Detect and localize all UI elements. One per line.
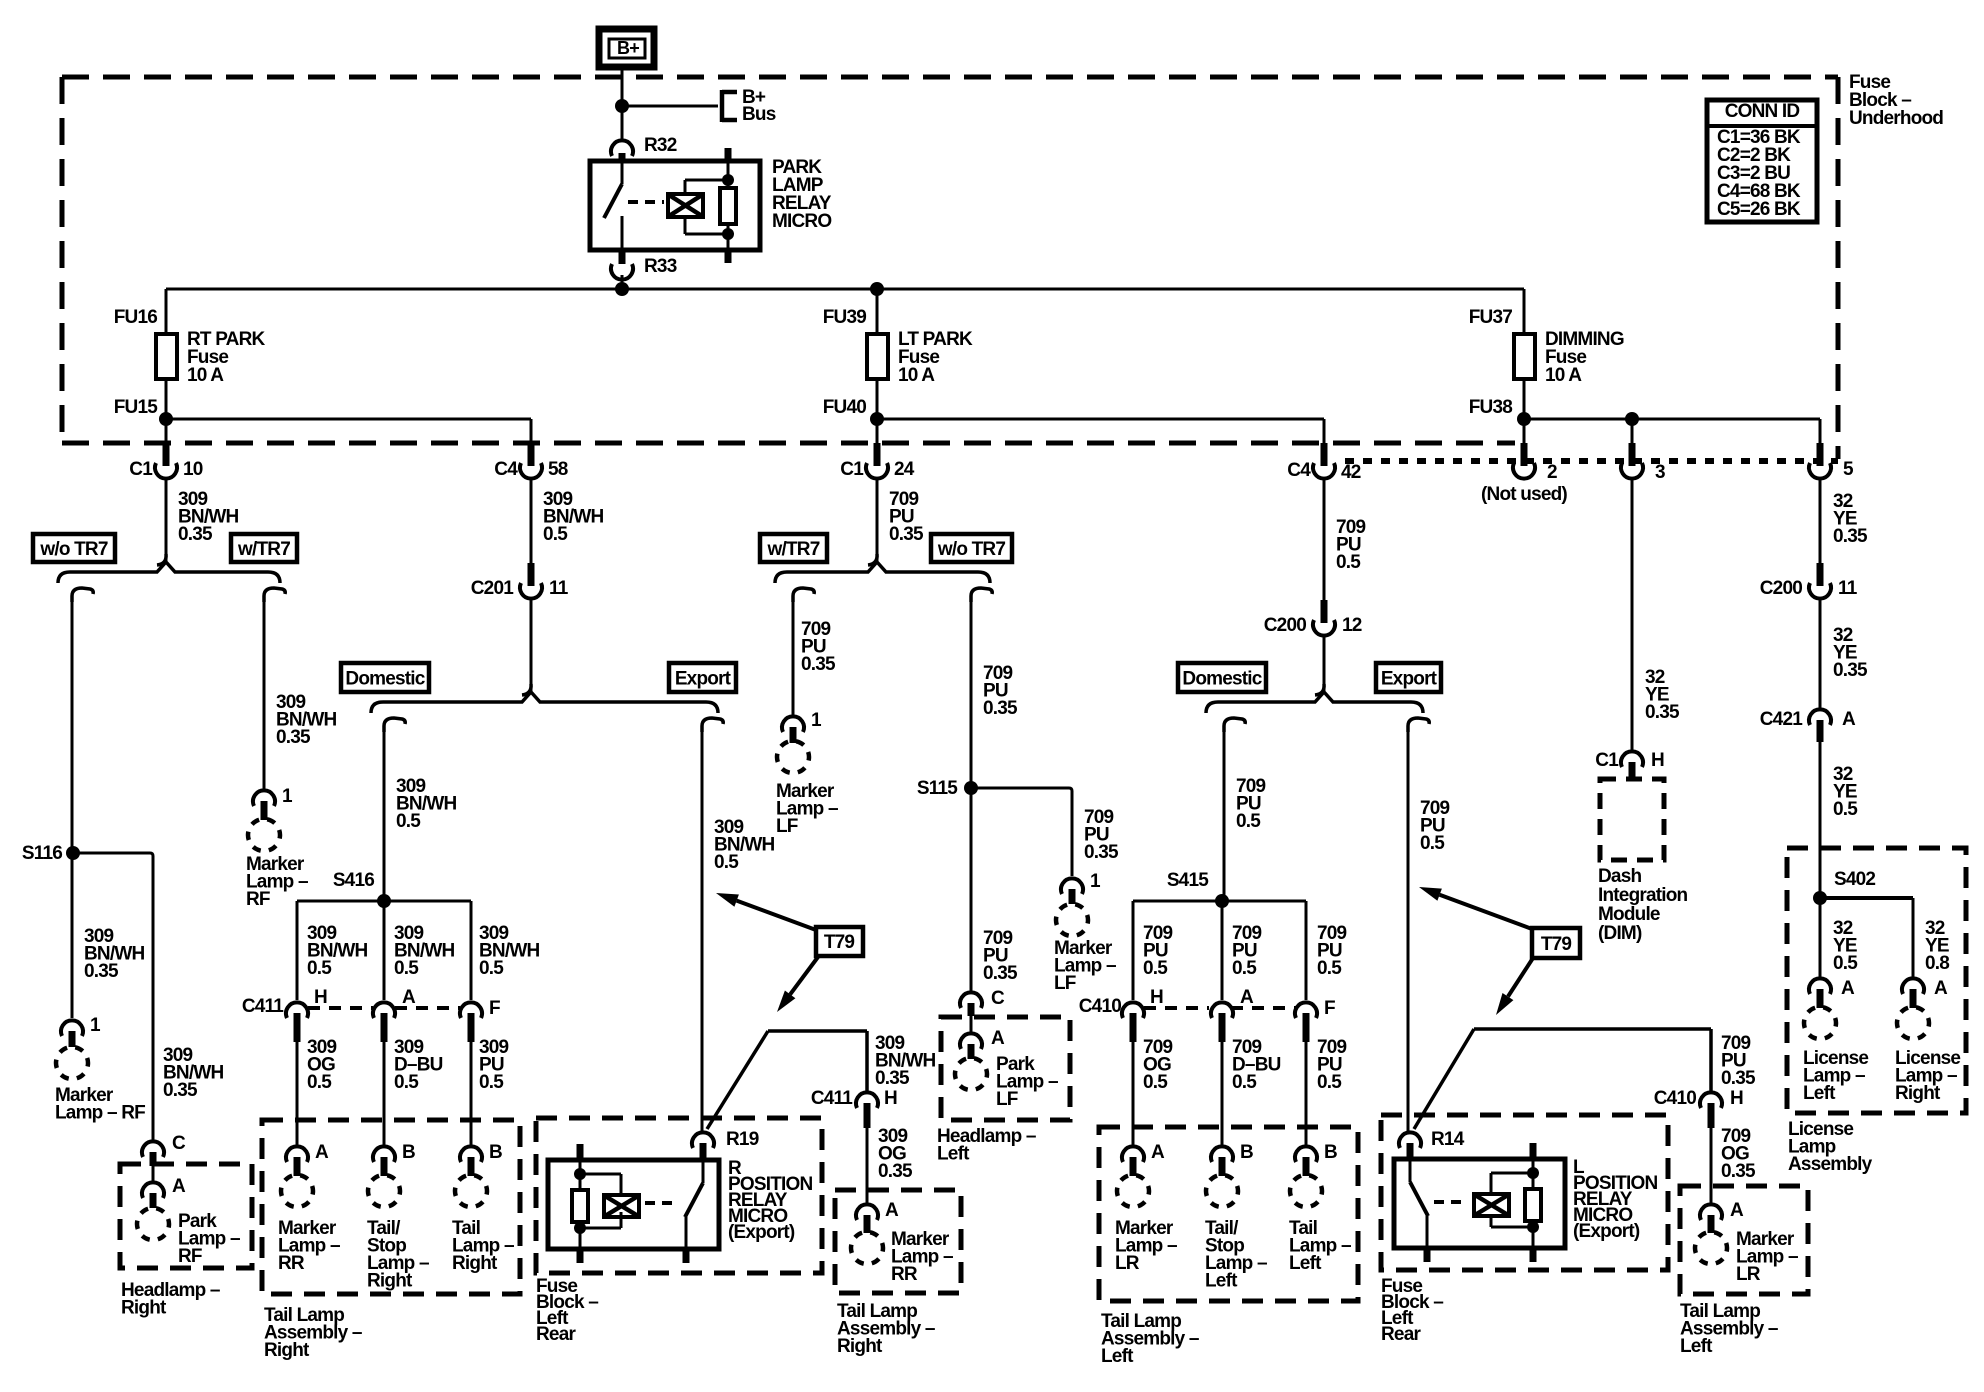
splice S402 bar — [1820, 898, 1913, 979]
svg-text:R32: R32 — [644, 135, 677, 156]
svg-text:10: 10 — [183, 459, 203, 480]
svg-text:Left: Left — [1680, 1336, 1713, 1357]
svg-text:B+: B+ — [617, 38, 639, 58]
node R14 resistor top — [1527, 1167, 1539, 1179]
svg-text:0.35: 0.35 — [1645, 702, 1680, 723]
wire C4-42 down — [1323, 477, 1326, 603]
relay coil-resistor loop wires — [685, 180, 728, 234]
tail lamp assembly left dashed box — [1099, 1127, 1358, 1301]
svg-text:58: 58 — [548, 459, 568, 480]
svg-text:FU40: FU40 — [823, 397, 866, 418]
svg-text:1: 1 — [1090, 871, 1101, 892]
svg-text:LF: LF — [776, 816, 798, 837]
svg-text:C: C — [991, 988, 1005, 1009]
svg-text:S115: S115 — [917, 778, 958, 799]
wire label 32 YE 0.5 (left lamp) — [1833, 918, 1858, 974]
wire S115 branch — [971, 788, 1072, 876]
wire bus to FU37 — [1523, 289, 1526, 334]
connector pin 1 (marker LF) — [782, 710, 822, 743]
svg-text:LF: LF — [996, 1089, 1018, 1110]
tail lamp assembly left box label — [1101, 1311, 1199, 1367]
relay R19 switch — [685, 1160, 703, 1249]
relay R14 pin stubs — [1427, 1143, 1533, 1262]
svg-text:C410: C410 — [1654, 1088, 1696, 1109]
svg-text:Right: Right — [452, 1253, 498, 1274]
dash integration module dashed box — [1600, 779, 1664, 860]
wire label 709 PU 0.35 — [889, 489, 924, 545]
connector pin A (marker RR) — [286, 1142, 329, 1176]
wire label 709 PU 0.35 (S115 branch) — [1084, 807, 1119, 863]
connector pin 1 (marker LF 2) — [1061, 871, 1101, 904]
svg-text:RF: RF — [178, 1246, 202, 1267]
svg-text:FU37: FU37 — [1469, 307, 1512, 328]
marker lamp LR label — [1115, 1218, 1177, 1274]
wire label 709 PU 0.5 (C4-42) — [1336, 517, 1366, 573]
relay R14 coil loop — [1491, 1173, 1533, 1227]
wire label 309 BN/WH 0.35 (marker RF) — [84, 926, 144, 982]
arrow T79 to jumper wire — [777, 957, 818, 1012]
node coil/resistor top — [722, 174, 734, 186]
svg-text:C410: C410 — [1079, 996, 1121, 1017]
tail lamp assembly left (rear) dashed box — [1680, 1186, 1808, 1294]
connector pin B (tail left) — [1295, 1142, 1337, 1176]
relay K - PARK LAMP RELAY MICRO box — [590, 161, 760, 250]
node FU40 branch — [870, 412, 884, 426]
option box Export (right) — [1376, 663, 1441, 692]
wire C411-F down — [470, 1042, 473, 1145]
svg-text:R14: R14 — [1431, 1129, 1465, 1150]
svg-text:H: H — [1730, 1088, 1743, 1109]
park lamp LF label — [996, 1054, 1058, 1110]
tail lamp assembly right box label — [264, 1305, 362, 1361]
svg-text:A: A — [402, 987, 416, 1008]
svg-text:Right: Right — [837, 1336, 883, 1357]
marker lamp LF bulb — [777, 741, 809, 773]
svg-text:0.8: 0.8 — [1925, 953, 1949, 974]
svg-text:S416: S416 — [333, 870, 374, 891]
wire C1-10 down — [165, 477, 168, 562]
svg-text:24: 24 — [894, 459, 915, 480]
headlamp right label — [121, 1280, 220, 1319]
svg-text:0.5: 0.5 — [479, 958, 504, 979]
wire label 709 PU 0.35 (wTR7) — [801, 619, 836, 675]
svg-text:FU15: FU15 — [114, 397, 158, 418]
svg-text:0.35: 0.35 — [875, 1068, 910, 1089]
connector C411 pin H — [286, 987, 327, 1042]
svg-text:0.5: 0.5 — [479, 1072, 504, 1093]
svg-text:0.5: 0.5 — [1317, 958, 1342, 979]
svg-text:3: 3 — [1655, 462, 1665, 483]
callout T79 (left) — [816, 927, 863, 956]
svg-text:B: B — [402, 1142, 415, 1163]
svg-text:CONN ID: CONN ID — [1725, 101, 1800, 122]
relay R19 dashed link — [645, 1201, 678, 1205]
option box w/o TR7 (left) — [33, 534, 115, 562]
tail lamp assembly right rear box label — [837, 1301, 935, 1357]
svg-text:0.5: 0.5 — [714, 852, 739, 873]
wire C410-A down — [1221, 1042, 1224, 1145]
svg-text:0.5: 0.5 — [1143, 958, 1168, 979]
svg-text:S116: S116 — [22, 843, 62, 864]
arrow T79 right to export wire — [1419, 887, 1532, 929]
svg-text:0.5: 0.5 — [1833, 799, 1858, 820]
svg-text:A: A — [172, 1176, 186, 1197]
svg-text:0.35: 0.35 — [1833, 660, 1868, 681]
wire label 709 PU 0.35 (jumper right) — [1721, 1033, 1756, 1089]
connector pin C (headlamp right) — [142, 1133, 186, 1166]
marker lamp RR rear bulb — [851, 1232, 883, 1264]
marker lamp RR rear label — [891, 1229, 953, 1285]
svg-text:Export: Export — [1381, 669, 1438, 690]
svg-text:12: 12 — [1342, 615, 1362, 636]
relay resistor — [720, 161, 736, 250]
svg-text:0.5: 0.5 — [1317, 1072, 1342, 1093]
distribution wire FU38 to pins 3 and 5 — [1524, 419, 1820, 445]
svg-text:C1: C1 — [129, 459, 153, 480]
wire C201 down — [530, 597, 533, 692]
svg-text:C200: C200 — [1760, 578, 1802, 599]
svg-text:0.5: 0.5 — [1232, 1072, 1257, 1093]
svg-text:Export: Export — [675, 669, 732, 690]
connector pin B (tail right) — [460, 1142, 502, 1176]
dash integration module label — [1598, 866, 1688, 944]
svg-text:w/TR7: w/TR7 — [237, 539, 290, 560]
license lamp assembly dashed box — [1787, 848, 1966, 1113]
wire label 309 BN/WH 0.35 (park RF) — [163, 1045, 223, 1101]
svg-text:Dash: Dash — [1598, 866, 1641, 887]
connector C1 pin H (DIM) — [1595, 750, 1664, 779]
relay R19 - R POSITION RELAY MICRO box — [548, 1160, 719, 1249]
wire C200-11 down — [1819, 597, 1822, 711]
svg-text:1: 1 — [282, 786, 293, 807]
svg-text:LR: LR — [1115, 1253, 1140, 1274]
svg-text:C200: C200 — [1264, 615, 1306, 636]
option split (LT park) — [775, 554, 992, 602]
svg-text:0.35: 0.35 — [878, 1161, 913, 1182]
option box w/TR7 (mid) — [760, 534, 827, 562]
svg-text:0.5: 0.5 — [543, 524, 568, 545]
relay R14 coil (box with X) — [1474, 1194, 1509, 1216]
wire label 309 BN/WH 0.5 (S416-A) — [394, 923, 454, 979]
connector C200 pin 12 — [1264, 600, 1362, 636]
wire C411-A down — [383, 1042, 386, 1145]
wire label 709 PU 0.35 (headlamp left) — [983, 928, 1018, 984]
marker lamp RF bulb (wTR7) — [248, 819, 280, 851]
fuse block left rear 2 label — [1381, 1276, 1443, 1345]
connector pin B (tail/stop left) — [1211, 1142, 1253, 1176]
wire label 32 YE 0.35 (pin5) — [1833, 491, 1868, 547]
node coil/resistor bottom — [722, 228, 734, 240]
splice bar S416 — [297, 901, 471, 1000]
svg-text:Right: Right — [367, 1271, 413, 1292]
wire C410-H to marker LR — [1710, 1128, 1713, 1204]
svg-text:0.35: 0.35 — [276, 727, 311, 748]
wire label 32 YE 0.35 (C421) — [1833, 625, 1868, 681]
wire C to A pin — [152, 1166, 155, 1181]
wire label 709 PU 0.5 (export right) — [1420, 798, 1450, 854]
tail lamp assembly right (rear) dashed box — [835, 1190, 961, 1293]
svg-text:Right: Right — [121, 1298, 167, 1319]
tail lamp right label — [452, 1218, 514, 1274]
tail lamp right bulb — [455, 1175, 487, 1207]
relay R19 resistor — [572, 1190, 588, 1222]
wire FU15 down — [165, 379, 168, 443]
svg-text:MICRO: MICRO — [772, 211, 831, 232]
marker lamp RR label — [278, 1218, 340, 1274]
svg-text:0.35: 0.35 — [1721, 1161, 1756, 1182]
relay actuation dashed link — [628, 200, 664, 204]
wire S402 left down — [1819, 898, 1822, 979]
svg-text:0.5: 0.5 — [1833, 953, 1858, 974]
connector C421 pin A — [1760, 709, 1856, 742]
svg-text:Left: Left — [1205, 1271, 1238, 1292]
svg-text:0.5: 0.5 — [394, 1072, 419, 1093]
svg-text:Assembly: Assembly — [1788, 1154, 1873, 1175]
svg-text:w/o TR7: w/o TR7 — [937, 539, 1005, 560]
connector pin 5 — [1809, 443, 1854, 480]
svg-text:0.5: 0.5 — [396, 811, 421, 832]
node B+ bus junction — [615, 99, 629, 113]
svg-text:0.35: 0.35 — [801, 654, 836, 675]
connector C411 pin F — [460, 998, 500, 1042]
option box Domestic (left) — [341, 663, 429, 692]
B+ Bus terminal symbol — [722, 87, 776, 125]
svg-text:LR: LR — [1736, 1264, 1761, 1285]
svg-text:C1: C1 — [1595, 750, 1619, 771]
svg-text:C421: C421 — [1760, 709, 1803, 730]
connector pin C (headlamp left) — [960, 988, 1005, 1016]
wire label 709 OG 0.5 — [1143, 1037, 1173, 1093]
relay R19 coil (box with X) — [604, 1195, 639, 1217]
svg-text:0.35: 0.35 — [889, 524, 924, 545]
svg-text:B: B — [489, 1142, 502, 1163]
connector C200 pin 11 (right) — [1760, 563, 1858, 599]
svg-text:A: A — [1842, 709, 1856, 730]
CONN ID table — [1707, 100, 1817, 222]
wire C411-H down — [296, 1042, 299, 1145]
svg-text:10 A: 10 A — [1545, 365, 1582, 386]
distribution wire FU15 to C4-58 — [166, 419, 531, 445]
connector C411 dashed row — [242, 996, 460, 1017]
svg-text:A: A — [1151, 1142, 1165, 1163]
connector C1 pin 10 — [129, 443, 202, 480]
node FU38 branch — [1517, 412, 1531, 426]
connector R33 — [611, 252, 677, 280]
relay label text — [772, 157, 832, 232]
license lamp left label — [1803, 1048, 1868, 1104]
svg-text:Module: Module — [1598, 904, 1660, 925]
wire label 309 BN/WH 0.5 (domestic) — [396, 776, 456, 832]
wire Domestic branch down (right) — [1223, 728, 1226, 901]
connector C4 pin 42 — [1287, 443, 1360, 483]
svg-text:A: A — [1730, 1200, 1744, 1221]
splice bar S415 — [1133, 901, 1306, 1000]
svg-text:B: B — [1324, 1142, 1337, 1163]
relay switch (park lamp relay) — [604, 161, 622, 250]
svg-text:Right: Right — [264, 1340, 310, 1361]
node R19 resistor top — [574, 1168, 586, 1180]
svg-text:RR: RR — [278, 1253, 305, 1274]
headlamp left dashed box — [941, 1017, 1070, 1120]
svg-text:10 A: 10 A — [898, 365, 935, 386]
park lamp LF bulb — [955, 1058, 987, 1090]
wire label 309 BN/WH 0.5 — [543, 489, 603, 545]
svg-text:11: 11 — [1838, 578, 1858, 599]
marker lamp RF bulb — [56, 1047, 88, 1079]
svg-text:0.5: 0.5 — [1143, 1072, 1168, 1093]
svg-text:0.35: 0.35 — [1084, 842, 1119, 863]
fuse block underhood dashed boundary — [62, 77, 1838, 459]
wire S116 branch right/down — [73, 853, 153, 1140]
svg-text:0.5: 0.5 — [307, 958, 332, 979]
option split (RT park) — [58, 554, 285, 602]
connector C410 pin H — [1122, 987, 1163, 1042]
svg-text:0.5: 0.5 — [1336, 552, 1361, 573]
node bus/FU39 junction — [870, 282, 884, 296]
node bus/relay junction — [615, 282, 629, 296]
svg-text:C4: C4 — [1287, 460, 1311, 481]
connector pin A (license right) — [1902, 978, 1948, 1008]
wire R33 to bus — [621, 275, 624, 289]
wire label 309 OG 0.35 — [878, 1126, 913, 1182]
svg-text:1: 1 — [90, 1015, 101, 1036]
svg-text:0.35: 0.35 — [983, 698, 1018, 719]
svg-text:A: A — [1240, 987, 1254, 1008]
wire label 32 YE 0.5 (license) — [1833, 764, 1858, 820]
svg-text:C411: C411 — [242, 996, 284, 1017]
svg-text:RR: RR — [891, 1264, 918, 1285]
power feed B+ box — [599, 29, 654, 67]
svg-text:0.35: 0.35 — [84, 961, 119, 982]
svg-text:0.5: 0.5 — [1420, 833, 1445, 854]
fuse FU37 DIMMING 10A — [1469, 307, 1624, 418]
license lamp left bulb — [1804, 1007, 1836, 1039]
marker lamp LR rear bulb — [1695, 1232, 1727, 1264]
svg-text:A: A — [885, 1200, 899, 1221]
svg-text:Left: Left — [1803, 1083, 1836, 1104]
svg-text:2: 2 — [1547, 462, 1557, 483]
node R19 resistor bottom — [574, 1222, 586, 1234]
svg-text:A: A — [315, 1142, 329, 1163]
wire Domestic branch down — [383, 728, 386, 901]
svg-text:A: A — [991, 1028, 1005, 1049]
svg-text:w/o TR7: w/o TR7 — [39, 539, 107, 560]
svg-text:Left: Left — [1101, 1346, 1134, 1367]
connector pin A (marker LR rear) — [1700, 1200, 1744, 1233]
svg-text:10 A: 10 A — [187, 365, 224, 386]
tail/stop lamp left label — [1205, 1218, 1267, 1292]
connector R14 — [1399, 1129, 1465, 1159]
wire label 709 PU 0.5 (F) — [1317, 1037, 1347, 1093]
wire label 709 PU 0.5 (S415-F) — [1317, 923, 1347, 979]
wire label 709 OG 0.35 — [1721, 1126, 1756, 1182]
svg-text:T79: T79 — [1541, 934, 1572, 955]
wire label 32 YE 0.35 (DIM) — [1645, 667, 1680, 723]
connector pin A (license left) — [1809, 978, 1855, 1008]
svg-text:Underhood: Underhood — [1849, 108, 1943, 129]
relay R14 resistor — [1525, 1159, 1541, 1248]
svg-text:FU38: FU38 — [1469, 397, 1512, 418]
relay R19 resistor line — [579, 1160, 582, 1249]
wire C1-24 down — [876, 477, 879, 562]
svg-text:C1: C1 — [840, 459, 864, 480]
wire bus to FU16 — [165, 289, 168, 334]
option box w/o TR7 (mid) — [931, 534, 1012, 562]
wire pin3 down to DIM — [1631, 477, 1634, 752]
bus wire (fuse feeds) — [166, 288, 1524, 291]
wire C to A (headlamp left) — [970, 1016, 973, 1032]
wire bus to FU39 — [876, 289, 879, 334]
marker lamp RR bulb — [281, 1175, 313, 1207]
connector pin 2 (not used) — [1481, 443, 1567, 505]
svg-text:F: F — [489, 998, 500, 1019]
node S416 — [333, 870, 391, 908]
license lamp assembly label — [1788, 1119, 1873, 1175]
connector pin A (park lamp RF) — [142, 1176, 186, 1208]
option box Export (left) — [669, 663, 736, 692]
svg-text:w/TR7: w/TR7 — [767, 539, 820, 560]
connector strip dotted boundary (rear of fuse block) — [1345, 458, 1838, 464]
svg-text:0.35: 0.35 — [1721, 1068, 1756, 1089]
svg-text:(DIM): (DIM) — [1598, 923, 1642, 944]
svg-text:0.35: 0.35 — [178, 524, 213, 545]
connector pin A (marker RR rear) — [856, 1200, 899, 1233]
connector C411 pin H (rear jumper) — [811, 1088, 897, 1128]
svg-text:Left: Left — [937, 1144, 970, 1165]
wire FU40 down — [876, 379, 879, 443]
wire label 32 YE 0.8 (right lamp) — [1925, 918, 1949, 974]
connector C410 pin H (rear jumper) — [1654, 1088, 1743, 1128]
wire C411-H to marker RR — [866, 1128, 869, 1204]
tail/stop lamp right bulb — [368, 1175, 400, 1207]
distribution wire FU40 to C4-42 — [877, 419, 1324, 445]
svg-text:R19: R19 — [726, 1129, 759, 1150]
connector C1 pin 24 — [840, 443, 914, 480]
node S415 — [1167, 870, 1229, 908]
tail lamp assembly right dashed box — [262, 1120, 520, 1294]
relay R19 coil loop — [580, 1174, 621, 1228]
relay R14 - L POSITION RELAY MICRO box — [1394, 1159, 1565, 1248]
fuse FU16 RT PARK 10A — [114, 307, 266, 418]
wire label 309 BN/WH 0.35 (jumper) — [875, 1033, 935, 1089]
wire w/TR7 branch down — [263, 598, 266, 789]
svg-text:Bus: Bus — [742, 104, 776, 125]
svg-text:S402: S402 — [1834, 869, 1875, 890]
svg-text:B: B — [1240, 1142, 1253, 1163]
wire label 309 D-BU 0.5 — [394, 1037, 443, 1093]
svg-text:T79: T79 — [824, 932, 855, 953]
arrow T79 right to jumper wire — [1496, 958, 1533, 1015]
svg-text:RF: RF — [246, 889, 270, 910]
svg-text:Domestic: Domestic — [1182, 669, 1262, 690]
node S116 — [22, 843, 80, 864]
license lamp right label — [1895, 1048, 1960, 1104]
marker lamp RF label — [55, 1085, 145, 1124]
connector C410 dashed row — [1079, 996, 1296, 1017]
node FU15 branch — [159, 412, 173, 426]
wire R14 jumper to C410-H — [1414, 1029, 1711, 1129]
wire R19 jumper to C411-H — [707, 1031, 867, 1129]
svg-text:0.35: 0.35 — [983, 963, 1018, 984]
arrow T79 to export wire — [716, 893, 816, 930]
wire Export branch down to R19 — [701, 728, 704, 1131]
option box Domestic (right) — [1178, 663, 1266, 692]
wire C200-12 down — [1323, 634, 1326, 692]
wire label 309 BN/WH 0.35 (wTR7) — [276, 692, 336, 748]
connector pin A (park lamp LF) — [960, 1028, 1005, 1059]
svg-text:Left: Left — [1289, 1253, 1322, 1274]
wire C4-58 down — [530, 477, 533, 566]
